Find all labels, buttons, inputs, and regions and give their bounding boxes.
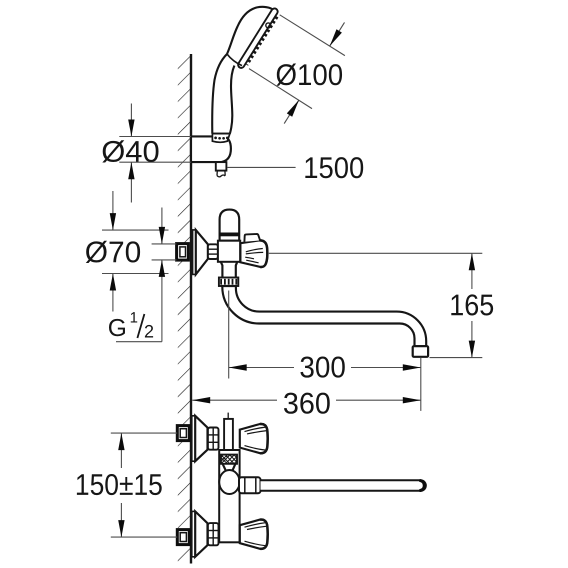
dim Ø100 ext lines <box>280 15 345 56</box>
side view: ribbed ring <box>219 278 238 287</box>
dim 1500 leader <box>227 166 296 168</box>
side view: hex nut stack <box>208 244 218 259</box>
svg-text:2: 2 <box>144 321 154 341</box>
svg-text:150±15: 150±15 <box>75 469 163 502</box>
plan: top union square <box>177 426 189 441</box>
plan: outlet hex <box>239 477 261 493</box>
plan: bottom union square <box>177 530 189 545</box>
plan: spout tube <box>261 480 426 491</box>
dim 165 <box>269 252 483 254</box>
side view: spout S tube <box>222 286 426 346</box>
svg-text:165: 165 <box>449 289 494 322</box>
plan: shoulder <box>223 464 236 470</box>
plan: top stub tube <box>224 419 233 456</box>
handle/head joint line <box>227 54 242 66</box>
G1/2 nipple square <box>177 244 189 261</box>
svg-text:360: 360 <box>283 387 331 420</box>
dim 360 <box>192 399 277 401</box>
wall <box>190 54 192 564</box>
svg-text:1500: 1500 <box>303 152 364 185</box>
side view: black ring band <box>219 233 240 237</box>
svg-text:G: G <box>108 315 127 342</box>
plan: bottom escutcheon <box>192 511 195 556</box>
dim G1/2 <box>152 243 177 245</box>
shower face capsule <box>238 8 278 67</box>
handle knurl band in holder <box>212 134 230 143</box>
plan: top hex stack <box>208 428 219 450</box>
side view: handle streaks <box>246 249 263 254</box>
side view: body lower neck <box>221 262 238 278</box>
svg-text:1: 1 <box>130 309 138 326</box>
handle grip end cap line <box>212 133 230 135</box>
plan: bottom handle bell <box>240 520 268 549</box>
pivot ring <box>266 23 271 28</box>
side view: valve body <box>218 241 240 262</box>
svg-text:Ø40: Ø40 <box>101 136 160 169</box>
handle right edge <box>230 66 235 134</box>
plan: diverter ball <box>219 470 239 494</box>
side view: handle top tab <box>244 234 260 242</box>
svg-text:Ø100: Ø100 <box>275 59 343 92</box>
plan: top handle bell <box>240 424 268 453</box>
svg-text:Ø70: Ø70 <box>85 236 142 269</box>
dim 150±15 <box>111 432 177 434</box>
holder bracket <box>191 136 231 162</box>
shower handle back edge <box>212 7 273 134</box>
plan: pull rod <box>227 413 229 419</box>
dim Ø40 <box>119 136 191 138</box>
spray nozzle serration <box>247 17 277 65</box>
plan: body bar <box>219 450 239 542</box>
hose nipple below holder <box>216 162 227 171</box>
plan: top escutcheon <box>192 416 195 461</box>
side view: escutcheon cone <box>196 230 208 275</box>
plan: knurl ring <box>221 455 237 464</box>
svg-text:300: 300 <box>299 351 346 384</box>
side view: handle bell <box>240 240 267 267</box>
dim Ø100 arrows <box>330 22 345 46</box>
shower hand set: handle+head white fill <box>212 7 277 134</box>
dim Ø70 <box>102 229 169 231</box>
side view: dome cap <box>220 210 240 241</box>
plan: bottom hex stack <box>208 523 219 545</box>
dim 300 <box>228 291 230 379</box>
side view: aerator tip <box>413 346 428 357</box>
side view: escutcheon flange <box>193 230 196 275</box>
